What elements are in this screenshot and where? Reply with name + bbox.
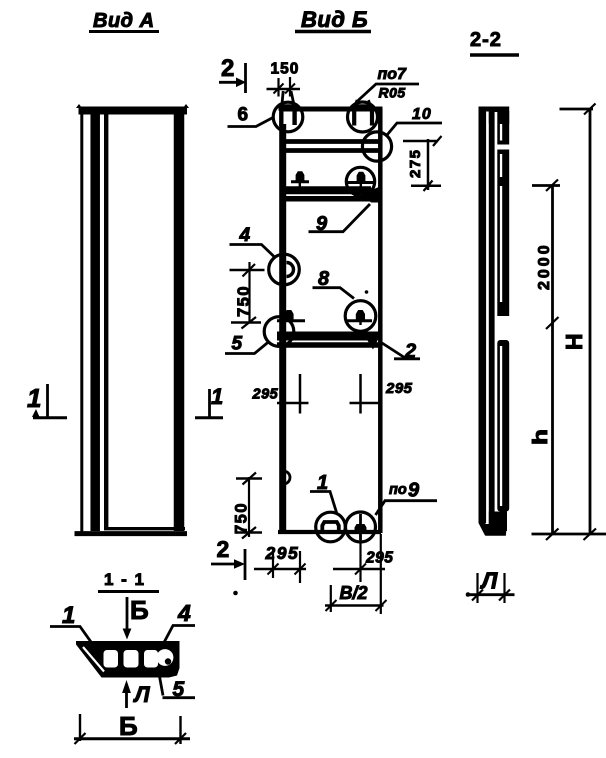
hook mark on left edge — [284, 471, 291, 484]
section 2-2 right wall seg2 — [497, 150, 509, 317]
view A panel outer bottom line — [75, 531, 188, 536]
anchor loop circle 6 (top left) — [273, 91, 303, 132]
label 5 with leader (1-1) — [159, 671, 196, 701]
title 1-1 — [98, 570, 159, 592]
svg-text:2000: 2000 — [536, 242, 553, 290]
label 2 with leader — [382, 341, 420, 363]
view direction arrow Б (above 1-1) — [123, 595, 149, 640]
label 4 with leader (1-1) — [160, 600, 195, 650]
svg-text:295: 295 — [365, 550, 393, 567]
view A panel inner bottom line — [104, 527, 185, 530]
shared bottom tick of H and h — [532, 529, 606, 541]
dimension В/2 — [325, 534, 387, 614]
view B panel left edge — [279, 124, 286, 534]
svg-text:750: 750 — [235, 285, 253, 317]
dimension 295 bottom-right — [333, 533, 393, 582]
svg-text:h: h — [530, 429, 552, 445]
anchor symbol (mid-left, row2) — [277, 310, 305, 321]
label 1 with leader (1-1) — [50, 602, 96, 649]
svg-text:275: 275 — [407, 148, 424, 178]
dimension 2000 / h (inner) — [530, 180, 560, 535]
dimension 295 bottom-left — [254, 543, 306, 583]
bottom anchor circle 1 (loop end view) — [316, 512, 346, 542]
view A panel inner left line — [104, 110, 108, 528]
svg-text:Вид А: Вид А — [93, 10, 155, 32]
svg-text:4: 4 — [177, 600, 191, 626]
svg-text:В/2: В/2 — [340, 583, 368, 603]
label 4 with leader — [230, 225, 275, 257]
dimension 750 (upper) — [230, 262, 265, 329]
svg-text:4: 4 — [239, 225, 251, 246]
view A panel thick left band — [90, 107, 100, 531]
dimension 750 (lower) — [233, 473, 263, 539]
shelf line B — [281, 196, 378, 202]
hook circle 3 (left edge) — [269, 254, 300, 285]
section 2-2 middle bar — [489, 111, 495, 529]
svg-text:R05: R05 — [379, 85, 406, 101]
section marker 1 (right of view A) — [195, 384, 223, 418]
dimension Б (bottom of 1-1) — [74, 711, 190, 744]
svg-text:Вид Б: Вид Б — [301, 7, 368, 32]
shelf line B2 — [277, 342, 381, 348]
section marker 2 (bottom, view B) — [211, 536, 245, 580]
svg-text:295: 295 — [265, 543, 300, 563]
view direction arrow А (below 1-1) — [122, 680, 150, 708]
view B panel top edge — [280, 107, 383, 112]
bottom anchor circle 9 (stem end view) — [346, 512, 376, 542]
circle 5 (left edge junction) — [264, 317, 294, 347]
section marker 1 (left of view A) — [27, 383, 67, 418]
svg-text:6: 6 — [238, 105, 249, 126]
tick 295 mid-left — [252, 374, 309, 414]
svg-text:Б: Б — [119, 711, 138, 741]
svg-text:5: 5 — [232, 334, 243, 355]
dimension H (outer right) — [560, 104, 596, 535]
thick shelf line A with arrow — [281, 187, 380, 203]
section 2-2 profile top block — [479, 107, 510, 125]
svg-text:по7: по7 — [378, 66, 408, 83]
dimension 275 — [403, 136, 442, 191]
dot speck left — [233, 591, 238, 596]
svg-text:750: 750 — [233, 502, 251, 534]
label 10 with leader — [387, 106, 442, 135]
svg-text:Л: Л — [480, 568, 499, 594]
svg-text:1: 1 — [62, 602, 75, 629]
svg-text:295: 295 — [385, 380, 413, 397]
anchor symbol (mid-left, row1) — [291, 171, 309, 187]
label 8 with leader — [313, 268, 355, 299]
svg-text:Н: Н — [561, 334, 587, 351]
svg-text:Б: Б — [130, 595, 149, 625]
title 2-2 — [470, 29, 519, 55]
dot speck right — [466, 592, 471, 597]
section 2-2 right wall seg1 — [497, 111, 509, 145]
tick 295 mid-right — [350, 374, 413, 414]
view B panel bottom edge — [278, 530, 381, 534]
thick shelf line A2 with arrow — [277, 332, 382, 350]
shelf double line upper — [281, 139, 382, 144]
svg-text:10: 10 — [412, 106, 432, 123]
anchor symbol circled 9 (mid-right, row1) — [346, 167, 374, 195]
svg-text:2: 2 — [221, 55, 234, 82]
view A panel right band — [174, 107, 185, 531]
section 2-2 left bar — [479, 111, 487, 536]
view B panel right edge — [378, 109, 383, 533]
label 5 with leader — [225, 334, 269, 355]
title Вид Б — [295, 7, 371, 32]
view A panel top bar — [76, 104, 189, 111]
label 1 with leader (bottom anchors) — [310, 472, 337, 514]
section 2-2 right wall seg3 — [497, 340, 509, 512]
svg-text:Л: Л — [133, 682, 151, 707]
section marker 2 (top, view B) — [219, 55, 246, 93]
svg-text:150: 150 — [271, 61, 300, 78]
title Вид А — [89, 10, 159, 32]
svg-text:295: 295 — [252, 387, 279, 403]
section 2-2 bottom block — [481, 512, 508, 536]
label 9 with leader — [309, 204, 371, 235]
svg-text:2-2: 2-2 — [470, 29, 502, 51]
dimension Л (bottom of 2-2) — [466, 568, 515, 604]
svg-text:1 - 1: 1 - 1 — [104, 570, 146, 589]
svg-text:2: 2 — [217, 536, 230, 562]
shelf double line lower — [281, 148, 382, 153]
svg-text:1: 1 — [27, 383, 41, 413]
section 1-1 profile — [76, 641, 180, 678]
view A panel left thin line — [80, 107, 83, 535]
svg-text:по: по — [389, 482, 407, 498]
edge circle 10 — [362, 132, 391, 161]
label по7 R05 with leader — [358, 66, 420, 101]
dimension 150 (top) — [267, 61, 301, 97]
svg-text:9: 9 — [408, 480, 420, 502]
dot speck near label 8 leader — [365, 290, 369, 294]
svg-text:1: 1 — [211, 384, 223, 409]
anchor loop circle 7 (top right) — [348, 100, 378, 132]
anchor symbol circled 8 (mid-right, row2) — [345, 301, 376, 332]
label 6 with leader — [228, 105, 274, 127]
label по9 with leader — [376, 480, 438, 516]
